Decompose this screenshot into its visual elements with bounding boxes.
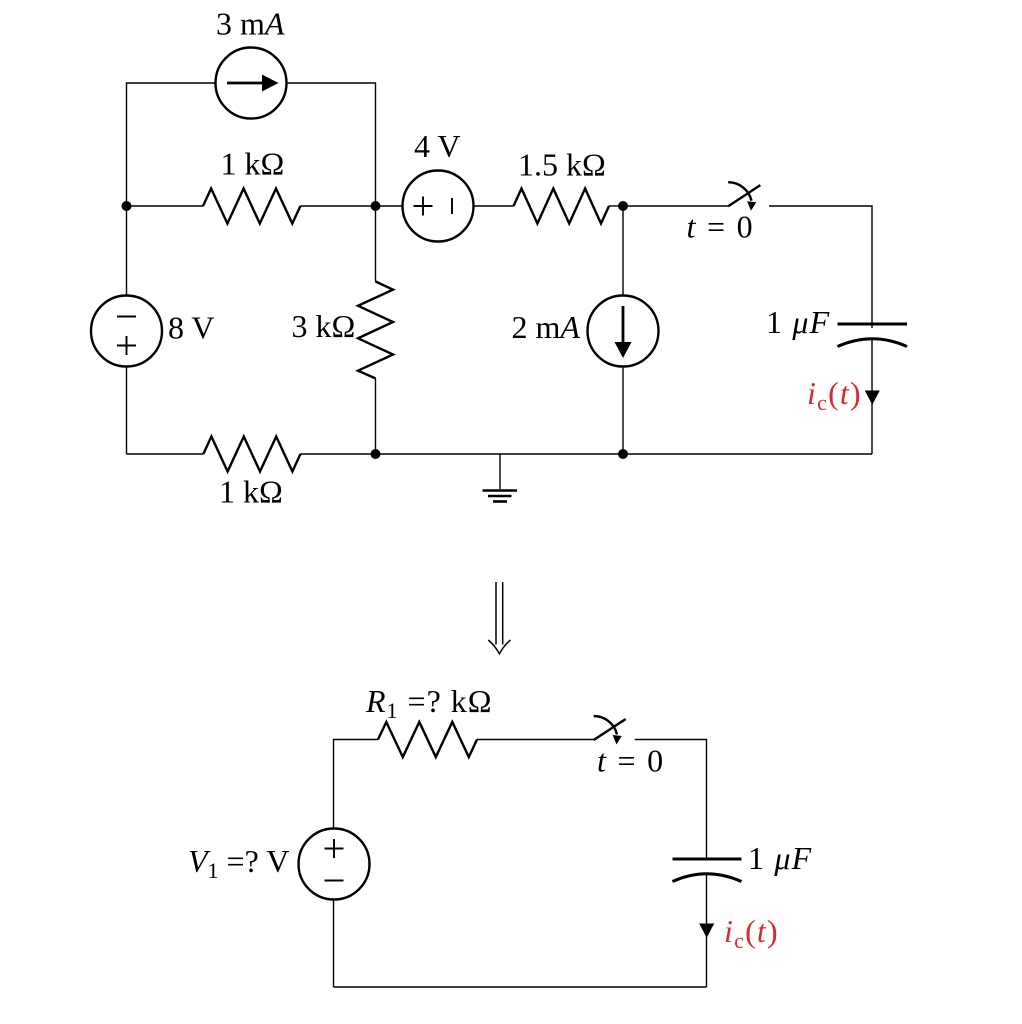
- wire R1.5k to node C: [609, 205, 623, 207]
- switch SW1 t=0 (opening): [728, 182, 760, 211]
- bottom rail right part: [300, 453, 872, 455]
- current source I1 3 mA: [216, 48, 287, 119]
- svg-text:t = 0: t = 0: [597, 743, 665, 779]
- wire node A to R 1k: [127, 205, 204, 207]
- double downward arrow: [488, 582, 510, 654]
- wire left rail below 8V: [126, 367, 128, 455]
- wire resistor to switch: [477, 739, 594, 741]
- voltage source V1 (plus top, minus bottom): [299, 829, 370, 900]
- wire node B down to R 3k: [375, 206, 377, 282]
- resistor R 1.5 kOhm: [514, 189, 610, 224]
- voltage source V 8V (minus top, plus bottom): [91, 296, 162, 367]
- arrowhead ic(t) direction (top circuit): [865, 391, 880, 405]
- node dot C: [618, 201, 628, 211]
- node dot B (mid, row2): [371, 201, 381, 211]
- wire node C down to 2mA source: [622, 206, 624, 296]
- svg-text:t = 0: t = 0: [687, 209, 755, 245]
- node dot E (bottom right-mid): [618, 449, 628, 459]
- svg-text:V1 =? V: V1 =? V: [188, 843, 289, 883]
- svg-text:1 kΩ: 1 kΩ: [219, 474, 283, 510]
- wire left rail: node to 8V source: [126, 206, 128, 296]
- switch SW2 t=0 (opening): [594, 716, 626, 745]
- svg-text:1.5 kΩ: 1.5 kΩ: [518, 147, 606, 183]
- node dot D (bottom mid): [371, 449, 381, 459]
- wire switch to right rail corner: [769, 206, 872, 328]
- resistor R 1 kOhm (top row): [203, 189, 300, 224]
- arrowhead ic(t) direction (bottom circuit): [699, 924, 714, 938]
- voltage source 4V (plus left, minus right): [403, 171, 474, 242]
- svg-text:R1 =? kΩ: R1 =? kΩ: [365, 683, 493, 723]
- svg-text:1 μF: 1 μF: [766, 304, 830, 340]
- svg-text:2 mA: 2 mA: [512, 309, 581, 345]
- capacitor C2 1uF (bottom circuit): [673, 859, 742, 882]
- svg-text:3 kΩ: 3 kΩ: [292, 308, 356, 344]
- wire 4V to R 1.5k: [474, 205, 514, 207]
- wire top-left loop: left rail top segment: [127, 83, 216, 206]
- resistor R1 = ? kOhm: [378, 722, 477, 757]
- svg-text:4 V: 4 V: [414, 128, 461, 164]
- wire cap to bottom rail with current arrow: [706, 873, 708, 987]
- wire cap to bottom rail with current arrow: [871, 338, 873, 454]
- current source I2 2 mA (down): [588, 296, 659, 367]
- wire top rail right of 3mA source down to node: [287, 83, 376, 206]
- bottom rail wire: [127, 453, 204, 455]
- wire switch to top-right corner: [635, 740, 707, 859]
- ground: [483, 454, 518, 502]
- bottom rail of bottom circuit: [334, 986, 707, 988]
- wire top-left of loop: [334, 740, 379, 829]
- svg-text:3 mA: 3 mA: [216, 6, 285, 42]
- wire 2mA to bottom rail: [622, 367, 624, 455]
- resistor R 3 kOhm (vertical): [358, 282, 393, 379]
- wire node B to 4V source: [376, 205, 403, 207]
- capacitor C1 1uF (top circuit): [838, 324, 908, 347]
- node dot A (left, row2): [122, 201, 132, 211]
- wire R1k to node B: [300, 205, 375, 207]
- wire node C to switch: [623, 205, 728, 207]
- svg-text:1 μF: 1 μF: [748, 840, 812, 876]
- wire R3k to bottom rail: [375, 378, 377, 454]
- resistor R 1 kOhm (bottom): [203, 437, 300, 472]
- wire V1 to bottom rail: [333, 900, 335, 988]
- svg-text:ic(t): ic(t): [807, 375, 862, 415]
- svg-text:ic(t): ic(t): [724, 913, 779, 953]
- svg-text:8 V: 8 V: [168, 310, 215, 346]
- svg-text:1 kΩ: 1 kΩ: [221, 146, 285, 182]
